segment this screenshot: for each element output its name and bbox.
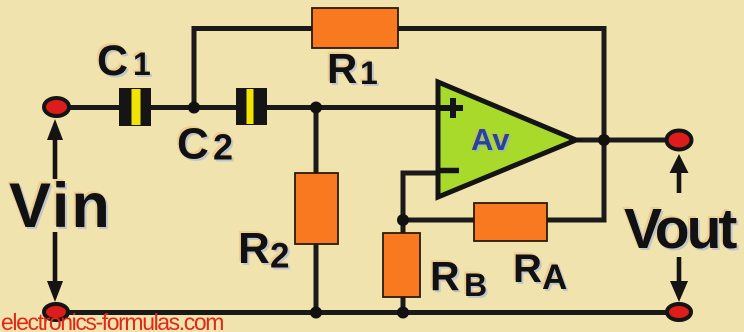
svg-text:Vout: Vout	[624, 197, 737, 261]
svg-text:A: A	[542, 258, 567, 297]
svg-text:R: R	[430, 253, 460, 299]
svg-text:C: C	[177, 120, 209, 169]
svg-text:B: B	[464, 267, 487, 303]
svg-text:Av: Av	[471, 122, 510, 157]
svg-text:1: 1	[133, 46, 151, 82]
svg-text:2: 2	[213, 127, 233, 168]
svg-text:R: R	[513, 247, 542, 291]
svg-text:Vin: Vin	[9, 171, 112, 241]
svg-text:1: 1	[360, 55, 378, 91]
svg-text:electronics-formulas.com: electronics-formulas.com	[1, 309, 223, 332]
svg-text:R: R	[238, 224, 270, 273]
svg-text:C: C	[97, 37, 128, 85]
svg-text:R: R	[327, 45, 357, 92]
svg-text:2: 2	[270, 237, 289, 276]
